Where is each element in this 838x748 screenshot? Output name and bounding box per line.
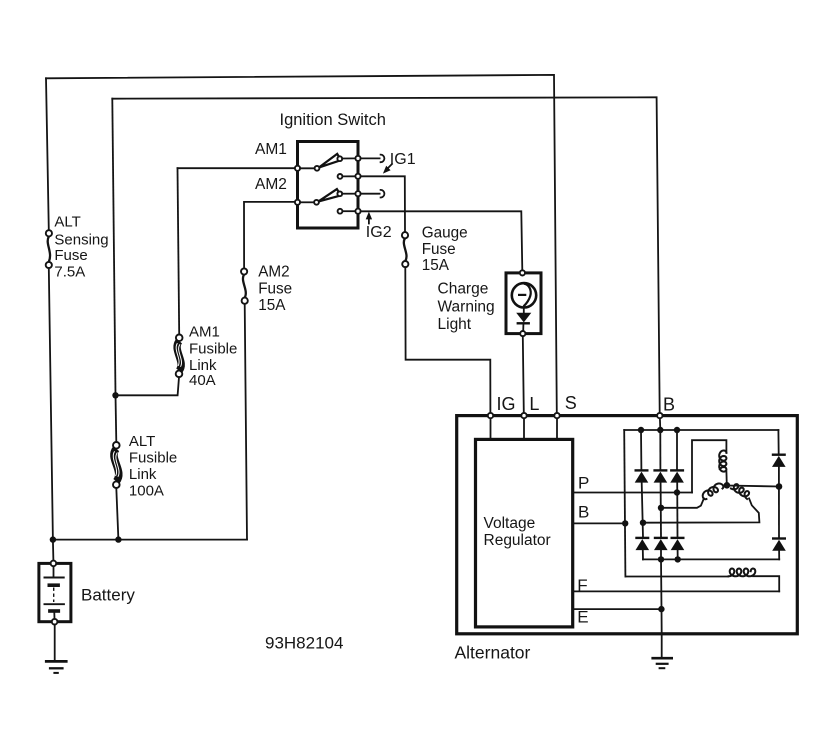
wire row3 stub out [361,193,380,195]
wire field coil right lead [753,576,779,591]
wire B feed top (battery to B terminal) [112,97,659,413]
contact row4 inner [338,209,356,214]
fuse AM2 Fuse 15A [241,268,248,303]
wire bottom feed horizontal [53,539,247,541]
terminal row1 right [355,156,360,161]
terminal lamp bottom [520,331,525,336]
arrow IG1 [383,164,392,174]
svg-text:93H82104: 93H82104 [265,633,343,652]
ground battery [45,661,68,673]
wire AM1 riser lower [116,377,180,395]
contact row2 inner [338,174,356,179]
stator coil phase A [719,451,726,472]
wire phase1 column upper [640,430,642,470]
node star point [724,482,731,489]
arrow IG2 [366,212,372,224]
wire stator C to phase1 column [643,498,759,522]
wire star point to neutral column [727,486,779,487]
wire battery to ground [54,625,56,661]
wire IG into regulator [490,418,492,438]
terminal lamp top [520,270,525,275]
terminal row2 right [355,174,360,179]
ignition switch box [298,142,359,229]
rotor field coil [729,569,756,577]
wire phase2 column lower [660,550,662,559]
svg-text:IG2: IG2 [366,224,392,241]
alternator box [457,416,798,634]
wire AM1 horizontal [178,167,298,169]
terminal IG [488,413,493,418]
node P phase3 junction [674,489,680,495]
node E junction [658,606,664,612]
terminal row4 right [355,209,360,214]
wire phase3 column middle [676,483,678,538]
wire phase3 column upper [676,430,678,470]
diode D1 top phase1 [635,470,649,482]
wire IG2 branch (row4 to charge lamp) [361,211,523,270]
fuse ALT Sensing Fuse 7.5A [46,230,52,268]
diode D7 top neutral [772,455,786,467]
lamp symbol [512,283,536,307]
node neutral junction [776,483,783,490]
wire L into regulator [523,418,525,438]
wire battery main riser upper [112,99,115,396]
wire neutral column upper [777,430,779,454]
svg-text:P: P [578,473,589,492]
node bus B [657,427,663,433]
wire row3 inner [342,193,355,195]
terminal AM1 [295,166,300,171]
wire phase3 column lower [677,550,679,559]
voltage regulator U1 [476,439,573,627]
wire AM2 feed riser lower [245,304,247,540]
wire phase2 column to ground [660,559,663,633]
wire IG1 branch (row2 to gauge fuse) [361,176,405,232]
svg-text:L: L [529,394,539,414]
node bottom bus phase2 [658,556,664,562]
connector end row3 [381,190,385,198]
diode in lamp unit [516,306,531,331]
svg-text:B: B [578,502,589,521]
diode D6 bottom phase3 [671,538,685,550]
wire battery main riser middle [115,395,118,442]
terminal row3 right [355,191,360,196]
switch blade AM2-IG2 [314,189,342,205]
wire ALT sensing riser upper [46,78,49,230]
wire battery main riser lower [116,488,118,540]
node bus phase3 [674,427,680,433]
diode D4 bottom phase1 [635,538,649,550]
diode D3 top phase3 [670,470,684,482]
wire ALT sensing riser lower [49,268,53,539]
wire S feed top (battery sense to S) [46,75,557,413]
diode D2 top phase2 [653,470,667,482]
node bus phase1 [638,427,644,433]
svg-text:E: E [577,607,588,626]
wire neutral column lower [778,551,780,560]
fusible link AM1 Fusible Link 40A [176,335,183,378]
wire row1 stub out [361,157,380,159]
svg-text:AM1: AM1 [255,141,287,158]
diode D8 bottom neutral [772,539,786,551]
wire rectifier top bus [624,429,778,431]
fuse Gauge Fuse 15A [402,232,409,267]
node bottom bus phase3 [675,556,681,562]
diode D5 bottom phase2 [654,538,668,550]
svg-text:IG: IG [497,394,516,414]
wire B terminal to bus [659,418,661,430]
svg-text:Battery: Battery [81,585,135,604]
svg-text:B: B [663,395,675,415]
node B sense junction [622,520,628,526]
switch blade AM1-IG1 [315,154,343,171]
wire rectifier bottom bus [643,558,779,560]
wire B sense output [573,522,625,524]
wire gauge fuse to IG terminal [405,267,490,413]
wire stator A to star point [725,471,727,484]
wire E output [573,608,662,610]
wire P hook to stator [692,440,726,492]
svg-text:IG1: IG1 [390,151,416,168]
wire AM1 blade stub [300,167,314,169]
terminal B [657,413,662,418]
node main riser / AM1 junction [112,392,118,398]
terminal AM2 [295,200,300,205]
connector end row1 [381,155,385,163]
wire phase1 column lower [642,550,644,559]
wire AM2 feed riser upper [244,202,298,269]
wire battery drop [52,540,55,561]
wire phase2 column upper [659,430,661,470]
node phase1 junction [640,520,646,526]
wire lamp to L terminal [523,336,524,413]
node battery feed junction [50,536,56,542]
wire row1 inner [342,157,355,159]
wire neutral column middle [778,467,780,538]
svg-text:S: S [565,393,577,413]
svg-text:Ignition Switch: Ignition Switch [280,111,386,129]
wire phase2 column middle [660,483,662,538]
wire field coil left lead [625,576,728,578]
wire phase1 column middle [642,483,643,538]
svg-text:AM2: AM2 [255,176,287,193]
stator coil phase B [703,484,724,500]
wire F output [573,590,779,592]
stator coil phase C [731,484,749,499]
battery [39,561,71,625]
wire AM1 riser upper [178,168,180,334]
wire B+ riser to field [624,430,625,577]
fusible link ALT Fusible Link 100A [113,442,120,488]
wire alternator ground drop [661,636,663,657]
wire P output [573,492,692,494]
node main riser bottom junction [115,536,121,542]
wire S into regulator [556,418,558,438]
terminal S [554,413,559,418]
charge warning light box [506,273,541,334]
node phase2 junction [658,505,664,511]
ground alternator [651,658,673,668]
wire AM2 blade stub [300,201,314,203]
terminal L [521,413,526,418]
wire stator B to phase2 column [661,498,704,507]
svg-text:Alternator: Alternator [455,642,531,662]
